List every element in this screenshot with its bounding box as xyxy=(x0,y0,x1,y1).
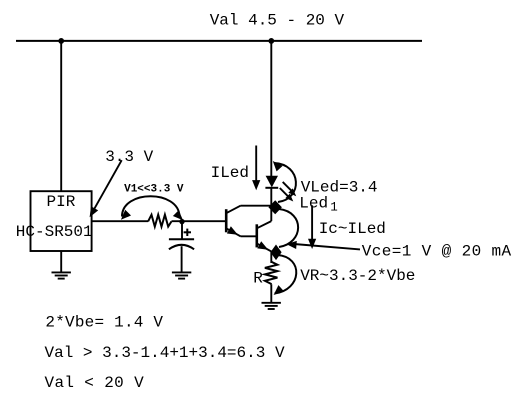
wire node to capacitor xyxy=(181,222,183,240)
wire rail to PIR xyxy=(60,41,62,191)
junction dot right rail xyxy=(268,38,274,44)
svg-text:Val 4.5 - 20 V: Val 4.5 - 20 V xyxy=(210,11,345,29)
junction dot left rail xyxy=(58,38,64,44)
pointer Led1 down xyxy=(311,205,313,242)
svg-text:ILed: ILed xyxy=(211,164,249,182)
pointer 3.3V to PIR output xyxy=(92,160,122,214)
wire rail to LED xyxy=(270,41,272,176)
svg-text:Vce=1 V @ 20 mA: Vce=1 V @ 20 mA xyxy=(362,243,512,261)
wire capacitor to ground xyxy=(181,246,183,272)
svg-text:2*Vbe= 1.4 V: 2*Vbe= 1.4 V xyxy=(45,313,163,331)
arc VR annotation xyxy=(275,255,297,294)
PIR box U1 xyxy=(31,191,92,251)
LED light arrow 1 xyxy=(283,182,293,192)
LED Led1 xyxy=(266,176,278,188)
svg-text:Val > 3.3-1.4+1+3.4=6.3 V: Val > 3.3-1.4+1+3.4=6.3 V xyxy=(45,344,285,362)
ground PIR xyxy=(52,272,71,278)
ground R xyxy=(262,303,281,309)
wire emitter node to R xyxy=(270,251,272,263)
svg-text:VR~3.3-2*Vbe: VR~3.3-2*Vbe xyxy=(300,267,415,285)
arc Ic annotation xyxy=(279,209,298,247)
node diamond emitter xyxy=(270,245,281,261)
svg-text:R: R xyxy=(253,270,263,288)
svg-text:PIR: PIR xyxy=(47,193,76,211)
pointer Vce to emitter node xyxy=(294,244,360,249)
transistor Q1 xyxy=(225,209,228,232)
junction node base RC xyxy=(179,219,184,224)
LED light arrow 2 xyxy=(280,188,290,198)
ground capacitor xyxy=(172,272,191,278)
node diamond collector xyxy=(268,200,282,214)
wire top power rail xyxy=(16,40,422,42)
wire PIR output to Q1 base xyxy=(92,220,149,222)
svg-text:1: 1 xyxy=(330,200,338,214)
wire R to ground xyxy=(270,284,272,303)
arc V1 annotation xyxy=(122,196,180,216)
svg-text:Val < 20 V: Val < 20 V xyxy=(45,374,145,392)
arrow ILed current xyxy=(255,146,257,184)
resistor R xyxy=(265,262,278,284)
svg-text:V1<<3.3 V: V1<<3.3 V xyxy=(124,184,184,196)
svg-text:HC-SR501: HC-SR501 xyxy=(16,223,93,241)
label + polarity xyxy=(184,231,191,233)
svg-text:Ic~ILed: Ic~ILed xyxy=(319,220,386,238)
capacitor C1 xyxy=(169,238,194,240)
resistor R2 (base series) xyxy=(148,215,171,227)
arc VLed annotation xyxy=(274,163,296,202)
svg-text:3.3 V: 3.3 V xyxy=(105,148,153,166)
svg-text:Led: Led xyxy=(299,194,328,212)
wire PIR to ground xyxy=(60,251,62,272)
wire LED to collector node xyxy=(270,188,272,221)
transistor Q2 xyxy=(255,224,258,247)
